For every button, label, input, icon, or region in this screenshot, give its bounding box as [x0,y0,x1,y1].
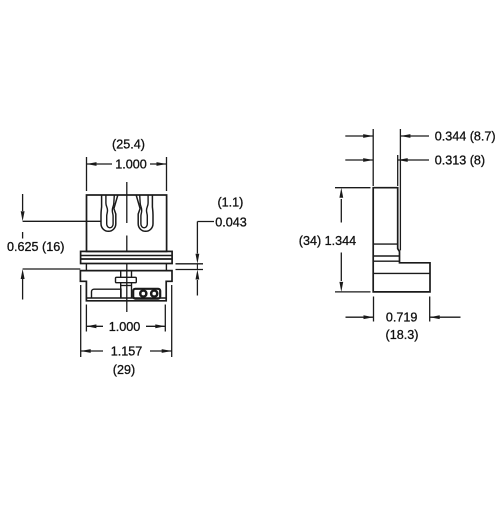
svg-text:1.157: 1.157 [111,344,143,358]
svg-text:(18.3): (18.3) [386,328,419,342]
svg-text:1.000: 1.000 [115,158,147,172]
svg-text:0.313 (8): 0.313 (8) [435,153,485,167]
svg-text:(25.4): (25.4) [112,137,145,151]
svg-text:0.719: 0.719 [386,311,418,325]
svg-text:0.043: 0.043 [215,215,247,229]
svg-text:0.344 (8.7): 0.344 (8.7) [435,130,496,144]
svg-text:1.000: 1.000 [109,320,141,334]
svg-text:0.625 (16): 0.625 (16) [7,240,64,254]
svg-text:(1.1): (1.1) [217,195,243,209]
svg-text:(29): (29) [113,363,135,377]
svg-text:(34) 1.344: (34) 1.344 [299,234,356,248]
